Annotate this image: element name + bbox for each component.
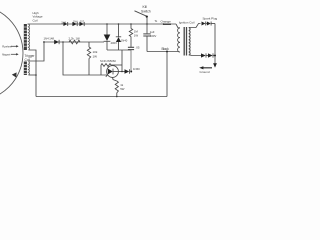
svg-text:5W: 5W (120, 87, 125, 91)
svg-text:SCR 2N5060: SCR 2N5060 (100, 59, 116, 63)
node: snubber drop (130, 23, 132, 25)
label SCR (100, 59, 116, 63)
wire: gate drop x63 (63, 42, 108, 75)
diode D2 on top bus (79, 22, 84, 26)
resistor R1 on trigger wire (69, 40, 80, 44)
svg-text:Coil: Coil (33, 18, 39, 22)
wire: cathode down (113, 77, 117, 81)
diode D1 on top bus (72, 22, 77, 26)
wire: anode out (118, 71, 124, 73)
wire: right drop (214, 24, 216, 64)
svg-text:1W: 1W (76, 37, 81, 41)
svg-text:Kill: Kill (143, 5, 148, 9)
wire: HV coil bottom to ground drop (29, 50, 37, 97)
transformer T1 secondary winding (189, 28, 190, 56)
node anode (130, 71, 132, 73)
svg-text:1N40: 1N40 (121, 38, 128, 42)
wire: trigger coil bottom to ground line (29, 74, 37, 76)
diode D6 anode side (125, 69, 130, 73)
wire: x167 to ground bus (166, 52, 168, 97)
svg-text:Ignition Coil: Ignition Coil (179, 20, 195, 24)
svg-text:1W: 1W (134, 33, 139, 37)
svg-text:1N60: 1N60 (133, 67, 140, 71)
SCR U1 circle (107, 66, 119, 78)
trigger coil core (24, 62, 27, 76)
node: diode drop 2 (118, 23, 120, 25)
svg-text:Magnet: Magnet (2, 53, 10, 56)
node: cap drop (146, 23, 148, 25)
label Ignition Coil (179, 20, 195, 24)
trigger coil winding (28, 62, 31, 75)
resistor R3 1M vertical (130, 24, 132, 29)
diode D3 on trigger wire (54, 40, 59, 44)
label Black wire (162, 47, 170, 51)
diode D10 (208, 53, 213, 57)
transformer T1 primary winding (178, 28, 180, 52)
wire: secondary bottom out (189, 54, 201, 57)
diode D9 (201, 53, 206, 57)
wire: trigger coil top up to trigger wire (29, 42, 45, 61)
svg-text:2.2k: 2.2k (69, 37, 75, 41)
svg-text:.05: .05 (136, 46, 140, 50)
diode D5 vertical (up) (118, 24, 120, 37)
node: trigger junction (43, 41, 45, 43)
capacitor C2 main (146, 24, 148, 33)
capacitor C1 (128, 46, 134, 48)
flywheel rotation arrowhead (12, 72, 17, 77)
ground arrow down (213, 63, 217, 67)
diode D4 vertical (down) (106, 24, 108, 35)
switch SW1 (135, 11, 147, 16)
label Orange wire (155, 19, 172, 23)
resistor R5 1k cathode (115, 81, 118, 93)
label R1 2.2k (69, 37, 81, 41)
HV coil winding (28, 24, 31, 50)
diode D8 (207, 22, 211, 26)
label High Voltage Coil (33, 11, 43, 23)
flywheel arc (0, 5, 23, 101)
wire: cap bottom to coil primary (147, 51, 178, 53)
wire: snubber to anode node (130, 50, 132, 72)
ground arrow left (202, 67, 212, 69)
svg-text:Orange: Orange (161, 19, 172, 23)
transformer T1 core (183, 27, 185, 56)
wire: y50 link (107, 49, 131, 51)
svg-text:Spark Plug: Spark Plug (203, 17, 218, 21)
label Flywheel Magnet with pointer arrows (2, 45, 12, 56)
label Spark Plug (203, 17, 218, 21)
SCR symbol inside (108, 69, 113, 75)
svg-text:1N4: 1N4 (44, 36, 50, 40)
resistor R4 gate (101, 64, 111, 67)
svg-text:Black: Black (162, 47, 170, 51)
HV coil core (24, 24, 27, 50)
label 1N4148 (trigger diode) (44, 36, 55, 40)
wire: bottom ground bus (36, 96, 167, 98)
diode D0 on top bus (63, 22, 67, 26)
wire: top bus (28, 23, 177, 25)
node: gate drop junction (62, 41, 64, 43)
wire: trigger wire y42 (44, 41, 104, 43)
label 1N4007 (top diodes) (61, 20, 84, 24)
svg-text:400V: 400V (150, 34, 157, 38)
label Ground (200, 70, 210, 74)
wire: bus slant into primary (176, 24, 180, 28)
label Kill Switch (141, 5, 151, 13)
svg-text:Ground: Ground (200, 70, 210, 74)
svg-text:1W: 1W (93, 54, 98, 58)
diode D7 (202, 22, 206, 26)
label Trigger Coil (25, 54, 36, 62)
node: primary return (166, 51, 168, 53)
svg-text:148: 148 (49, 36, 54, 40)
wire: x122 drop to anode (121, 50, 123, 72)
node: diode drop 1 (106, 23, 108, 25)
resistor R2 10k vertical (88, 42, 90, 47)
wire: primary bottom (178, 51, 181, 54)
svg-text:Flywheel: Flywheel (2, 45, 12, 48)
wire: secondary top out (189, 24, 201, 28)
svg-text:Switch: Switch (141, 10, 151, 14)
